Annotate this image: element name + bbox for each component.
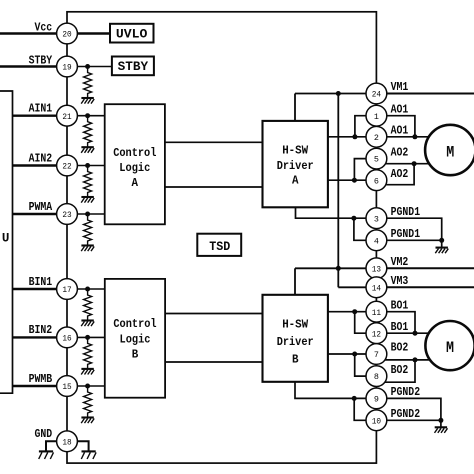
wire VM3 to right edge [387,286,474,288]
svg-text:4: 4 [374,236,379,246]
ground (pin18 right) [81,451,96,459]
wire driver A ground to pin3 PGND1 [296,207,377,218]
svg-text:PGND2: PGND2 [391,408,421,421]
wire bracket pin11 BO1 (right) [376,312,415,334]
wire Control Logic B to H-SW Driver B (1) [165,313,262,315]
svg-text:BO2: BO2 [391,342,409,355]
svg-text:VM3: VM3 [391,275,409,288]
wire driver A out1 through pin2 AO1 to motor [328,136,430,138]
wire bracket pin8 BO2 (left) [355,354,377,376]
node junction AO1 motor [412,134,417,139]
wire Vcc input [0,32,57,34]
svg-text:PGND2: PGND2 [391,386,421,399]
wire STBY input [0,65,57,67]
svg-text:Driver: Driver [277,335,314,349]
ground (PGND2) [435,427,448,433]
pin 6 (AO2) [366,170,387,191]
wire bracket pin10 PGND2 (left) [354,398,376,420]
svg-text:B: B [132,347,139,361]
svg-text:H-SW: H-SW [282,318,309,332]
ground (PGND1) [435,248,448,254]
wire PWMB input [13,385,57,387]
svg-text:16: 16 [62,334,71,344]
svg-text:Logic: Logic [119,161,150,175]
node junction BO2 tie [352,352,357,357]
wire pin18 GND right [77,441,88,451]
svg-text:17: 17 [62,285,71,295]
resistor pulldown on BIN2 [84,337,92,369]
block TSD (thermal shutdown) [197,234,241,256]
svg-text:M: M [446,144,454,162]
svg-text:12: 12 [372,329,381,339]
ground (PWMB pulldown) [81,418,94,424]
svg-text:23: 23 [62,210,71,220]
node junction PWMB [85,384,90,389]
wire VM3 up to VM trunk [337,268,339,287]
ground (PWMA pulldown) [81,246,94,252]
wire BIN1 to Control Logic B [77,288,104,290]
svg-text:10: 10 [372,416,381,426]
svg-text:14: 14 [372,283,381,293]
wire PGND1 external tie (right) [376,218,441,240]
svg-text:7: 7 [374,350,379,360]
svg-text:AO2: AO2 [391,168,409,181]
svg-text:Control: Control [113,317,156,331]
wire pin7 BO2 to motor [376,359,429,361]
wire VM2 down into H-SW Driver B top [294,268,296,295]
svg-text:STBY: STBY [118,60,149,74]
motor M (channel A) [425,125,474,175]
resistor pulldown on AIN2 [84,166,92,198]
pin 14 (VM3) [366,277,387,298]
svg-text:A: A [292,174,299,188]
node junction PGND2 gnd [438,418,443,423]
wire pin18 GND left [46,441,57,451]
wire AIN1 to Control Logic A [77,115,104,117]
svg-text:9: 9 [374,395,379,405]
wire Control Logic A to H-SW Driver A (1) [165,141,263,143]
node junction AO2 tie [352,178,357,183]
wire Control Logic A to H-SW Driver A (2) [165,186,263,188]
svg-text:11: 11 [372,308,381,318]
svg-text:18: 18 [62,437,71,447]
ground (AIN1 pulldown) [81,147,94,153]
node junction VM1 trunk [336,91,341,96]
node junction PGND1 gnd [439,238,444,243]
svg-text:6: 6 [374,176,379,186]
ground (pin18 left) [39,451,54,459]
pin 11 (BO1) [366,301,387,322]
block H-SW Driver B [263,295,328,382]
svg-text:24: 24 [372,90,381,100]
wire driver B out1 to pin11 BO1 [328,311,377,313]
ground (BIN1 pulldown) [81,321,94,327]
node junction PGND2 tie [352,396,357,401]
node junction BIN1 [85,287,90,292]
wire VM1 down into H-SW Driver A top [294,94,296,121]
svg-text:5: 5 [374,155,379,165]
svg-text:Vcc: Vcc [35,21,53,34]
motor M (channel B) [425,321,474,370]
pin 24 (VM1) [366,83,387,104]
svg-text:15: 15 [62,382,71,392]
wire Control Logic B to H-SW Driver B (2) [165,361,262,363]
wire AIN1 input [13,114,57,116]
svg-text:19: 19 [62,63,71,73]
wire AIN2 input [13,164,57,166]
wire pin5 AO2 to motor [376,163,429,165]
svg-text:21: 21 [62,112,71,122]
wire PGND2 external tie (right) [376,398,441,420]
node junction PWMA [85,212,90,217]
pin 23 (PWMA) [57,204,78,225]
svg-text:Driver: Driver [277,159,314,173]
wire bracket pin4 PGND1 (left) [354,218,377,240]
wire bracket pin8 BO2 (right) [376,360,415,382]
svg-text:BIN2: BIN2 [29,324,53,337]
node junction BO1 tie [352,309,357,314]
svg-text:8: 8 [374,372,379,382]
wire driver A out2 to pin6 AO2 [328,179,377,181]
wire bracket pin12 BO1 (left) [355,312,377,334]
svg-text:AO1: AO1 [391,103,409,116]
node junction BO1 motor [413,331,418,336]
pin 19 (STBY) [57,56,78,77]
svg-text:A: A [132,176,139,190]
svg-text:BO2: BO2 [391,364,409,377]
svg-text:B: B [292,353,299,367]
wire PGND2 to ground [440,420,442,427]
svg-text:PWMB: PWMB [29,373,53,386]
svg-text:20: 20 [62,30,71,40]
wire PWMA to Control Logic A [77,213,104,215]
svg-text:VM1: VM1 [391,81,409,94]
svg-text:AO1: AO1 [391,125,409,138]
node junction BO2 motor [413,357,418,362]
svg-text:13: 13 [372,264,381,274]
node junction VM2 trunk [336,266,341,271]
wire VM1 to right edge [387,93,474,95]
CPU box (cut off at image left edge) [0,91,13,393]
svg-text:AIN2: AIN2 [29,152,53,165]
wire bracket pin1 AO1 (right) [376,116,415,137]
pin 20 (Vcc) [57,23,78,44]
wire VM trunk (VM1 to VM2) [337,94,339,269]
wire AIN2 to Control Logic A [77,165,104,167]
node junction AO2 motor [412,161,417,166]
pin 22 (AIN2) [57,155,78,176]
pin 9 (PGND2) [366,388,387,409]
pin 1 (AO1) [366,105,387,126]
resistor pulldown on BIN1 [84,289,92,321]
node junction AIN2 [85,163,90,168]
wire VM1 pin24 to driver A supply [295,93,366,95]
svg-text:PWMA: PWMA [29,201,53,214]
pin 15 (PWMB) [57,376,78,397]
svg-text:AO2: AO2 [391,146,409,159]
wire PWMB to Control Logic B [77,385,104,387]
pin 3 (PGND1) [366,208,387,229]
ground (STBY pulldown) [81,98,94,104]
wire VM2 pin13 to driver B supply [295,267,366,269]
pin 4 (PGND1) [366,230,387,251]
svg-text:UVLO: UVLO [116,27,148,41]
svg-text:M: M [446,339,454,357]
wire pin19 to STBY block [77,66,112,68]
svg-text:PGND1: PGND1 [391,206,421,219]
pin 12 (BO1) [366,323,387,344]
svg-text:PGND1: PGND1 [391,228,421,241]
svg-text:2: 2 [374,133,379,143]
block Control Logic B (U-B) [105,279,165,398]
pin 17 (BIN1) [57,279,78,300]
svg-text:VM2: VM2 [391,256,409,269]
node junction STBY [85,64,90,69]
pin 5 (AO2) [366,148,387,169]
resistor pulldown on PWMB [84,386,92,418]
svg-text:U: U [2,231,10,246]
svg-text:1: 1 [374,112,379,122]
svg-text:BO1: BO1 [391,321,409,334]
wire: outer supply/ground loop (top rail, left pin column, bottom rail, right pin column) [67,12,376,463]
resistor pulldown on AIN1 [84,116,92,148]
pin 21 (AIN1) [57,105,78,126]
wire BIN2 input [13,336,57,338]
ground (AIN2 pulldown) [81,197,94,203]
pin 13 (VM2) [366,258,387,279]
pin 16 (BIN2) [57,327,78,348]
wire pin12 BO1 to motor [376,332,430,334]
block H-SW Driver A [263,121,328,207]
svg-text:GND: GND [35,428,53,441]
svg-text:Logic: Logic [120,332,151,346]
svg-text:BIN1: BIN1 [29,276,53,289]
wire VM3 pin14 [338,286,366,288]
wire VM2 to right edge [387,267,474,269]
pin 7 (BO2) [366,344,387,365]
pin 18 (GND) [57,431,78,452]
ground (BIN2 pulldown) [81,369,94,375]
svg-text:AIN1: AIN1 [29,103,53,116]
svg-text:22: 22 [62,162,71,172]
wire BIN1 input [13,288,57,290]
svg-text:3: 3 [374,214,379,224]
wire bracket pin6 AO2 (right) [376,164,414,185]
svg-text:TSD: TSD [209,240,230,254]
wire bracket pin1 AO1 (left) [355,116,377,137]
pin 10 (PGND2) [366,410,387,431]
wire BIN2 to Control Logic B [77,336,104,338]
node junction AIN1 [85,113,90,118]
wire PGND1 to ground [441,240,443,247]
svg-text:Control: Control [113,146,156,160]
node junction BIN2 [85,335,90,340]
pin 8 (BO2) [366,366,387,387]
wire PWMA input [13,213,57,215]
pin 2 (AO1) [366,126,387,147]
wire driver B ground to pin9 PGND2 [295,382,376,399]
block UVLO [110,24,154,43]
block Control Logic A (U-A) [105,104,165,224]
wire bracket pin5 AO2 (left) [354,159,376,181]
node junction PGND1 tie [351,216,356,221]
svg-text:BO1: BO1 [391,299,409,312]
block STBY [112,57,154,76]
resistor pulldown on PWMA [84,214,92,246]
svg-text:H-SW: H-SW [282,143,309,157]
wire pin20 to UVLO block [77,32,110,34]
svg-text:STBY: STBY [29,54,53,67]
resistor pulldown on STBY [84,67,92,99]
wire driver B out2 to pin7 BO2 [328,353,377,355]
node junction AO1 tie [352,134,357,139]
